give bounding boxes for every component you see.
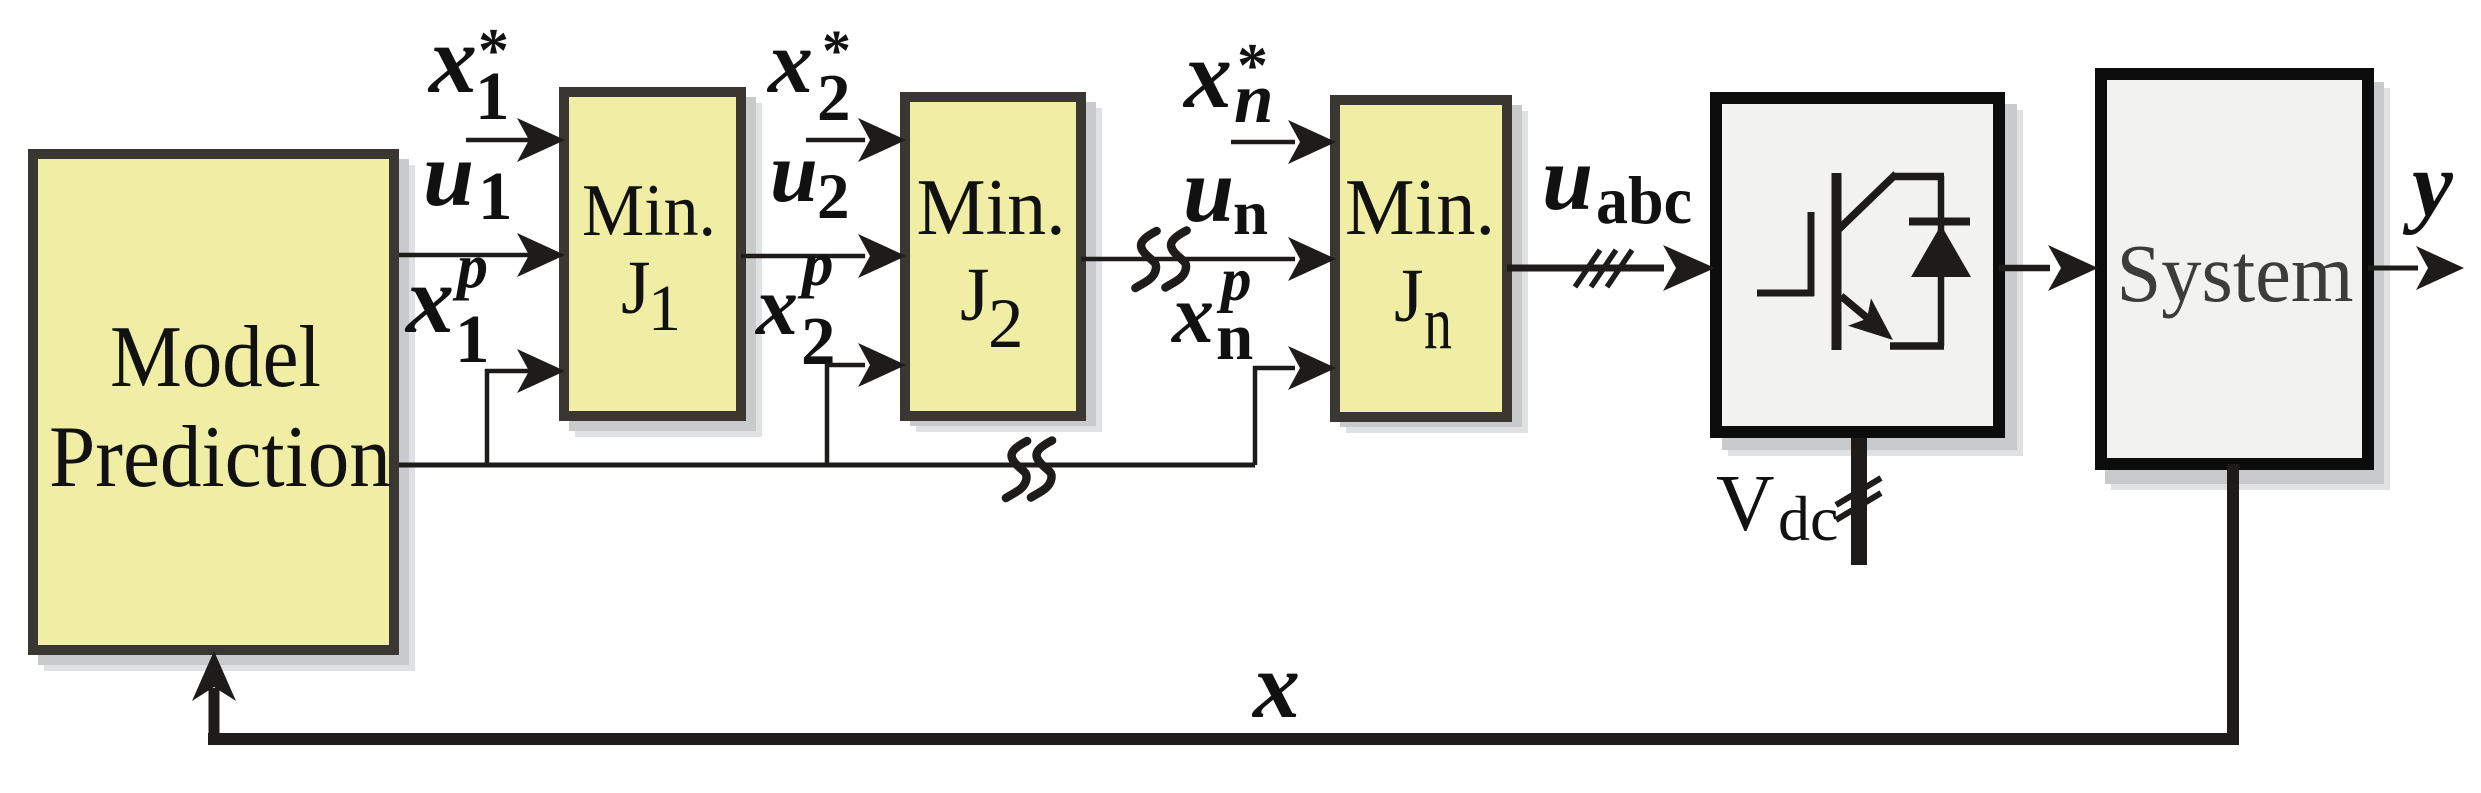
IGBT collector diagonal bbox=[1839, 174, 1896, 229]
IGBT emitter diagonal bbox=[1841, 296, 1884, 332]
diode cathode bar bbox=[1909, 218, 1970, 226]
svg-text:J: J bbox=[621, 246, 651, 330]
break squiggle on J2-Jn wire 1 bbox=[1135, 231, 1156, 288]
diode branch vertical bbox=[1938, 176, 1945, 346]
svg-text:x: x bbox=[754, 260, 798, 353]
wire Vdc stub bbox=[1851, 438, 1867, 565]
svg-text:x: x bbox=[1170, 268, 1214, 361]
wire J1 to J2 bbox=[741, 254, 865, 259]
wire x1* arrow bbox=[466, 138, 530, 143]
Vdc break slash 2 bbox=[1836, 493, 1881, 520]
block Min J2 bbox=[905, 97, 1081, 416]
svg-text:abc: abc bbox=[1596, 162, 1692, 238]
svg-text:Min.: Min. bbox=[582, 170, 716, 252]
wire Jn third input riser bbox=[1255, 368, 1295, 465]
IGBT gate bar bbox=[1808, 212, 1815, 296]
svg-text:Prediction: Prediction bbox=[49, 409, 391, 506]
feedback wire horizontal bbox=[208, 733, 2239, 745]
block Min Jn shadow bbox=[1346, 111, 1528, 433]
block System shadow bbox=[2111, 88, 2390, 490]
svg-text:2: 2 bbox=[988, 285, 1024, 363]
break squiggle on bus 1 bbox=[1006, 441, 1027, 498]
svg-text:n: n bbox=[1233, 178, 1268, 248]
block converter bbox=[1716, 98, 1999, 432]
svg-text:n: n bbox=[1424, 281, 1452, 365]
svg-text:n: n bbox=[1234, 60, 1274, 138]
svg-text:x: x bbox=[1251, 634, 1300, 738]
three-phase slashes bbox=[1575, 250, 1600, 287]
svg-text:Model: Model bbox=[110, 309, 321, 406]
svg-text:u: u bbox=[1183, 139, 1234, 241]
wire u1/x1p from Model Prediction to J1 bbox=[399, 253, 530, 258]
block Model Prediction bbox=[33, 154, 394, 650]
IGBT emitter arrowhead bbox=[1848, 298, 1893, 340]
feedback wire left riser bbox=[209, 688, 220, 745]
Vdc break slash 1 bbox=[1836, 478, 1881, 505]
block Min Jn bbox=[1335, 100, 1507, 417]
block Min J1 bbox=[564, 92, 741, 416]
wire system output y bbox=[2368, 266, 2418, 271]
wire J1 third input riser bbox=[487, 371, 530, 465]
wire prediction bus bbox=[399, 463, 1255, 468]
svg-text:x: x bbox=[1182, 21, 1232, 128]
svg-text:1: 1 bbox=[455, 301, 490, 377]
wire converter to system bbox=[1999, 265, 2050, 272]
svg-text:p: p bbox=[797, 229, 834, 299]
IGBT gate lead bbox=[1757, 290, 1814, 297]
break squiggle on J2-Jn wire 2 bbox=[1165, 231, 1186, 288]
svg-text:Min.: Min. bbox=[917, 164, 1066, 252]
block Model Prediction shadow bbox=[44, 165, 415, 671]
break squiggle on bus 2 bbox=[1031, 441, 1052, 498]
block Min J1 shadow bbox=[575, 103, 762, 437]
svg-text:1: 1 bbox=[475, 58, 510, 134]
wire u_abc Jn to converter bbox=[1507, 265, 1664, 272]
svg-text:2: 2 bbox=[801, 303, 836, 379]
svg-text:n: n bbox=[1216, 300, 1253, 374]
diode triangle bbox=[1911, 225, 1971, 277]
svg-text:Min.: Min. bbox=[1345, 164, 1495, 252]
svg-text:x: x bbox=[766, 13, 813, 112]
wire J2 to Jn bbox=[1081, 257, 1295, 262]
block Min J2 shadow bbox=[916, 108, 1102, 432]
svg-text:2: 2 bbox=[817, 161, 850, 233]
IGBT bottom wire bbox=[1890, 342, 1944, 350]
block System bbox=[2101, 74, 2368, 464]
wire x2* arrow bbox=[806, 138, 865, 143]
svg-text:System: System bbox=[2117, 227, 2354, 319]
feedback wire from system bottom bbox=[2227, 464, 2239, 745]
svg-text:dc: dc bbox=[1778, 483, 1838, 554]
svg-text:1: 1 bbox=[478, 158, 513, 234]
svg-text:V: V bbox=[1716, 458, 1775, 548]
block converter shadow bbox=[1728, 110, 2023, 456]
svg-text:u: u bbox=[423, 123, 474, 225]
svg-text:p: p bbox=[452, 233, 488, 301]
svg-text:u: u bbox=[1542, 127, 1593, 229]
wire xn* arrow bbox=[1231, 140, 1295, 145]
svg-text:1: 1 bbox=[648, 272, 681, 345]
svg-text:J: J bbox=[1394, 254, 1424, 338]
svg-text:J: J bbox=[960, 253, 990, 337]
svg-text:2: 2 bbox=[817, 61, 851, 135]
IGBT top wire bbox=[1892, 173, 1944, 181]
wire J2 third input riser bbox=[827, 365, 865, 465]
svg-text:x: x bbox=[404, 246, 454, 353]
feedback arrowhead bbox=[192, 651, 236, 701]
IGBT main bar bbox=[1832, 173, 1842, 350]
svg-text:x: x bbox=[427, 6, 477, 113]
